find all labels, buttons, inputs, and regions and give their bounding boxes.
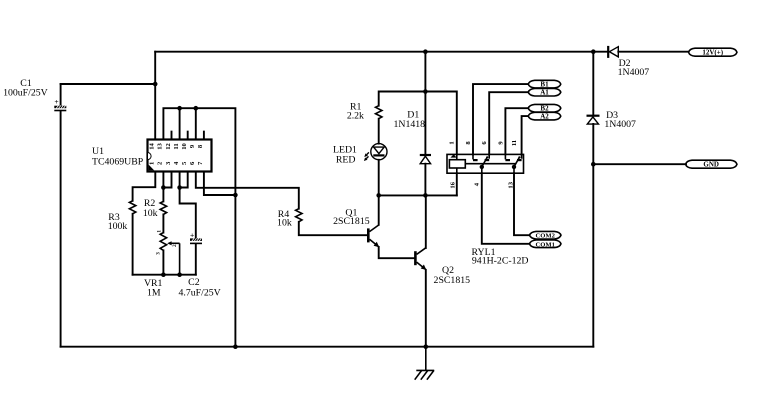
- node junction pin4-pin5: [177, 185, 182, 190]
- wire relay pin16 riser: [456, 173, 458, 195]
- svg-text:4: 4: [474, 182, 481, 186]
- resistor R1: [376, 106, 382, 119]
- label VR1 value: [144, 278, 163, 299]
- svg-text:12: 12: [165, 143, 172, 150]
- wire right rail lower: [592, 124, 594, 347]
- node connector COM1: [530, 240, 562, 248]
- svg-text:13: 13: [157, 143, 164, 150]
- resistor R4: [296, 209, 302, 222]
- wire relay pin13 to COM2: [514, 173, 530, 235]
- wire pin9 riser: [195, 108, 197, 139]
- wire D2 left lead: [593, 51, 607, 53]
- svg-text:13: 13: [508, 181, 515, 188]
- wire pin8 stub: [203, 132, 205, 140]
- wire D2 right lead to 12V tag: [618, 51, 688, 53]
- svg-text:2SC1815: 2SC1815: [434, 275, 471, 286]
- wire R3 bottom: [132, 214, 134, 275]
- potentiometer VR1: [160, 233, 179, 275]
- label D1 value: [394, 110, 426, 130]
- node connector COM2: [530, 231, 562, 239]
- svg-text:4.7uF/25V: 4.7uF/25V: [179, 288, 221, 299]
- wire relay pin4 to COM1: [482, 173, 530, 244]
- label LED1 RED: [333, 145, 357, 166]
- node junction D2-rail: [591, 49, 596, 54]
- svg-text:RED: RED: [336, 155, 356, 166]
- svg-text:2: 2: [157, 161, 164, 165]
- node junction pin2-pin3: [161, 185, 166, 190]
- svg-text:1N4007: 1N4007: [604, 119, 636, 130]
- svg-text:1N1418: 1N1418: [394, 119, 426, 130]
- svg-text:A2: A2: [540, 113, 549, 121]
- wire LED bottom: [378, 160, 380, 196]
- svg-text:GND: GND: [703, 161, 719, 169]
- label R3 value: [108, 212, 128, 232]
- node junction gnd vertical-bottom rail: [233, 344, 238, 349]
- label C2 value: [179, 277, 221, 299]
- node connector A1: [528, 88, 561, 96]
- resistor R2: [160, 201, 166, 214]
- svg-text:B1: B1: [540, 81, 549, 89]
- node junction R1net-D1: [423, 89, 428, 94]
- wire pin11 riser: [179, 108, 181, 139]
- node connector 12V(+): [689, 48, 738, 57]
- svg-text:10k: 10k: [143, 208, 158, 219]
- svg-text:941H-2C-12D: 941H-2C-12D: [472, 255, 529, 266]
- label D2 value: [618, 58, 650, 78]
- wire collector horizontal: [379, 194, 457, 196]
- label R1 value: [347, 102, 364, 122]
- wire pin3 jog: [163, 172, 171, 188]
- node junction VR1 bottom: [161, 272, 166, 277]
- svg-text:TC4069UBP: TC4069UBP: [92, 157, 144, 168]
- node junction wiper-bottom: [177, 272, 182, 277]
- svg-text:3: 3: [165, 161, 172, 165]
- wire pin4 down: [179, 172, 181, 188]
- node junction Q2 emitter-bottom rail: [424, 344, 429, 349]
- wire pin7 to ground net: [204, 172, 236, 196]
- label RYL1 value: [472, 247, 529, 267]
- node junction C1-rail: [153, 82, 158, 87]
- node connector B1: [528, 80, 561, 88]
- wire bottom rail: [61, 346, 594, 348]
- svg-text:1: 1: [156, 230, 162, 233]
- wire pin6 to R4: [196, 172, 299, 209]
- label R2 value: [143, 198, 158, 219]
- capacitor C2: [190, 231, 202, 245]
- wire A2 tag to relay pin11: [522, 116, 529, 154]
- svg-text:100k: 100k: [108, 221, 128, 232]
- svg-text:100uF/25V: 100uF/25V: [3, 88, 48, 99]
- wire Q2 emitter vertical: [425, 270, 427, 347]
- pin numbers RYL1 top: [449, 140, 518, 146]
- label D3 value: [604, 110, 636, 130]
- capacitor C1: [54, 97, 66, 111]
- op-amp U1 IC body TC4069UBP: [148, 140, 212, 172]
- svg-text:6: 6: [189, 161, 196, 165]
- wire pin1 to R3: [133, 172, 156, 201]
- pin numbers U1 bottom row: [149, 161, 205, 165]
- svg-text:7: 7: [197, 161, 204, 165]
- svg-text:1: 1: [149, 162, 156, 165]
- svg-text:14: 14: [149, 143, 156, 150]
- relay RYL1: [447, 154, 524, 173]
- pin numbers U1 top row: [149, 143, 205, 150]
- wire top rail 12V: [155, 51, 593, 53]
- svg-text:2SC1815: 2SC1815: [333, 216, 370, 227]
- label U1: [92, 146, 144, 168]
- wire D1 upper lead: [424, 52, 426, 155]
- node junction pin11: [177, 106, 182, 111]
- svg-text:A1: A1: [540, 89, 549, 97]
- svg-text:8: 8: [197, 144, 204, 148]
- svg-text:11: 11: [511, 140, 518, 146]
- pin numbers VR1: [156, 230, 178, 255]
- wire C1 horizontal: [61, 83, 156, 85]
- svg-text:2.2k: 2.2k: [347, 111, 364, 122]
- node junction top rail-D1: [423, 49, 428, 54]
- wire IC top horizontal pins 13-11-9: [163, 108, 235, 347]
- node junction GND-rail: [591, 162, 596, 167]
- svg-text:C2: C2: [188, 277, 200, 288]
- wire D1 lower lead: [424, 164, 426, 196]
- wire R2 bottom to VR1: [162, 214, 164, 232]
- pole 2 contacts: [504, 154, 506, 159]
- svg-text:1: 1: [449, 141, 456, 144]
- wire VR1 bottom: [162, 250, 164, 274]
- wire right rail upper: [592, 52, 594, 115]
- svg-text:COM1: COM1: [535, 241, 554, 248]
- wire R1 to LED: [378, 119, 380, 144]
- wire left rail lower: [60, 111, 62, 347]
- wire B2 tag to relay pin9: [505, 108, 528, 154]
- label Q1 value: [333, 207, 370, 227]
- svg-text:+: +: [54, 97, 58, 106]
- transistor Q1: [368, 225, 379, 247]
- wire pin4 net to C2 top: [180, 188, 196, 239]
- svg-text:6: 6: [481, 141, 488, 145]
- wire R1 top horizontal: [379, 92, 457, 155]
- wire Q2 collector vertical: [425, 195, 427, 248]
- svg-text:COM2: COM2: [535, 233, 555, 240]
- wire Q1 collector vertical: [378, 195, 380, 224]
- diode D1: [420, 155, 431, 164]
- svg-text:5: 5: [181, 161, 188, 165]
- wire B1 tag to relay pin8: [473, 84, 528, 154]
- label R4 value: [277, 209, 292, 228]
- wire Q1 emitter to Q2 base: [379, 247, 415, 258]
- node connector B2: [528, 104, 561, 112]
- wire RC bottom horizontal: [133, 274, 196, 276]
- diode D2: [608, 46, 618, 58]
- svg-text:U1: U1: [92, 146, 104, 157]
- svg-text:11: 11: [173, 143, 180, 149]
- svg-text:4: 4: [173, 161, 180, 165]
- wire pin10 stub: [187, 132, 189, 140]
- svg-text:16: 16: [450, 181, 457, 188]
- pin numbers RYL1 bottom: [450, 181, 515, 188]
- svg-text:8: 8: [465, 141, 472, 145]
- svg-text:9: 9: [189, 144, 196, 148]
- resistor R3: [129, 201, 135, 214]
- wire left rail upper: [60, 84, 62, 106]
- svg-text:9: 9: [497, 141, 504, 145]
- svg-text:10: 10: [181, 143, 188, 150]
- pole 1 contacts: [472, 154, 474, 159]
- svg-text:1N4007: 1N4007: [618, 67, 650, 78]
- wire pin5 jog: [180, 172, 188, 188]
- label C1 value: [3, 78, 48, 99]
- wire GND horizontal: [593, 163, 686, 165]
- transistor Q2: [415, 248, 426, 270]
- node junction pin7-gnd vertical: [233, 193, 238, 198]
- node connector GND: [686, 160, 738, 169]
- svg-text:12V(+): 12V(+): [702, 49, 723, 57]
- node junction LED-Q1 collector: [376, 193, 381, 198]
- ground symbol: [415, 347, 435, 380]
- wire A1 tag to relay pin6: [489, 92, 528, 154]
- svg-text:10k: 10k: [277, 217, 292, 228]
- wire pin14 riser: [154, 52, 156, 140]
- svg-text:1M: 1M: [147, 288, 161, 299]
- label Q2 value: [434, 265, 471, 286]
- wire C2 bottom: [195, 244, 197, 275]
- node junction D1-Q2 collector: [423, 193, 428, 198]
- node junction pin9: [194, 106, 199, 111]
- svg-text:3: 3: [156, 252, 162, 255]
- wire pin12 stub: [171, 132, 173, 140]
- LED LED1: [364, 144, 387, 161]
- wire R4 bottom to Q1 base: [299, 222, 368, 235]
- diode D3: [587, 116, 600, 124]
- svg-text:2: 2: [172, 244, 178, 247]
- node connector A2: [528, 112, 561, 120]
- wire pin2 down to R2: [162, 172, 164, 202]
